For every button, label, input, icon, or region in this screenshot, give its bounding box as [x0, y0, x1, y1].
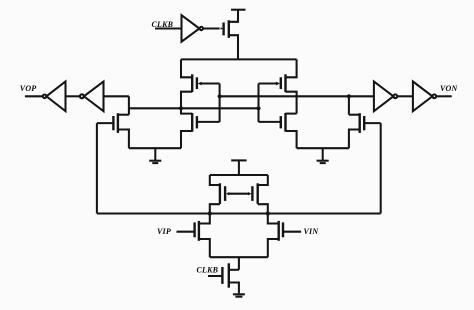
transistor M6 (right reset NMOS)	[349, 96, 381, 148]
svg-text:VIN: VIN	[304, 227, 320, 236]
node right tail junction	[266, 211, 270, 215]
wire node OR horizontal	[220, 95, 374, 97]
node right-gates junction	[256, 106, 260, 110]
wire VOP stub	[25, 95, 43, 97]
transistor M11 (input VIN NMOS)	[268, 214, 301, 258]
wire input pair source U	[210, 256, 268, 258]
wire top latch rail	[181, 58, 297, 60]
transistor M3 (latch left PMOS)	[181, 59, 220, 108]
wire left source U	[129, 147, 181, 149]
wire tail stub	[238, 257, 240, 270]
wire between left inverters	[66, 95, 80, 97]
node left-gates junction	[218, 94, 222, 98]
ground (bottom)	[233, 294, 245, 296]
transistor M5 (left reset NMOS)	[97, 96, 129, 148]
transistor M1 (latch left NMOS)	[181, 108, 220, 148]
node left tail junction	[208, 211, 212, 215]
transistor M4 (latch right PMOS)	[259, 59, 297, 113]
wire left gate strap	[219, 84, 221, 122]
wire node OL to inverter I1	[104, 95, 129, 97]
wire between right inverters	[397, 95, 413, 97]
wire left feedback loop	[96, 123, 98, 213]
wire I5 output to M9 gate	[203, 27, 219, 29]
ground (left)	[149, 148, 161, 163]
wire feedback bus	[97, 212, 381, 214]
ground (right)	[317, 148, 329, 163]
svg-text:VIP: VIP	[157, 227, 171, 236]
wire VON stub	[436, 95, 452, 97]
transistor M9 (top clock PMOS)	[221, 10, 238, 60]
transistor M12 (tail clock NMOS)	[208, 263, 239, 293]
VDD supply (top)	[231, 9, 246, 11]
inverter I3	[374, 82, 397, 112]
inverter I2 (VOP output)	[43, 82, 66, 112]
inverter I5	[182, 15, 204, 42]
svg-text:VOP: VOP	[20, 84, 37, 93]
wire node OL horizontal	[129, 107, 259, 109]
wire right gate strap	[257, 84, 259, 122]
transistor M8 (middle right PMOS)	[248, 175, 267, 214]
inverter I4 (VON output)	[413, 82, 436, 112]
transistor M2 (latch right NMOS)	[259, 113, 297, 148]
svg-text:CLKB: CLKB	[197, 265, 219, 274]
wire right source U	[297, 147, 349, 149]
VDD supply (middle)	[231, 160, 246, 175]
inverter I1	[80, 82, 104, 112]
node right drain junction	[347, 94, 351, 98]
wire middle rail	[210, 174, 268, 176]
wire right feedback loop	[380, 123, 382, 213]
wire CLKB to inverter I5	[155, 27, 182, 29]
wire middle gate tie	[229, 193, 250, 195]
svg-text:VON: VON	[440, 84, 459, 93]
transistor M10 (input VIP NMOS)	[177, 214, 210, 258]
node OL junction	[179, 106, 183, 110]
transistor M7 (middle left PMOS)	[210, 175, 229, 214]
